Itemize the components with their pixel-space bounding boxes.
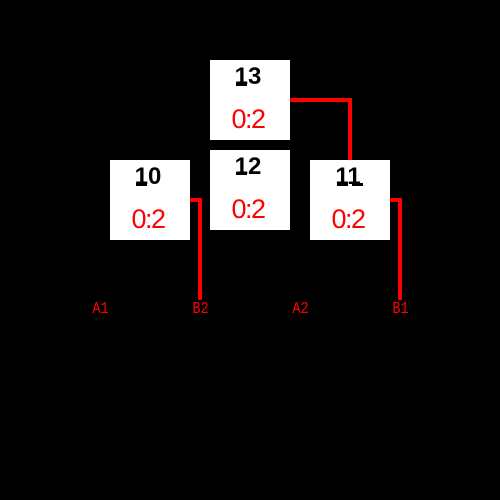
wire 10 to B2 vertical segment bbox=[198, 198, 202, 300]
box 11 number label bbox=[308, 165, 388, 189]
digit 1 foot serif (13) bbox=[236, 83, 247, 86]
node label B1 bbox=[392, 301, 409, 318]
box 10 score 0:2 bbox=[108, 206, 188, 233]
node label A2 bbox=[292, 301, 309, 318]
box 10 number label bbox=[108, 165, 188, 189]
match box 13 bbox=[210, 60, 290, 140]
box 12 number label bbox=[208, 155, 288, 179]
box 12 score 0:2 bbox=[208, 196, 288, 223]
digit 1 foot serif (10) bbox=[136, 183, 147, 186]
match box 11 bbox=[310, 160, 390, 240]
wire 10 to B2 horizontal segment bbox=[190, 198, 202, 202]
wire 13 to 11 horizontal segment bbox=[290, 98, 352, 102]
match box 10 bbox=[110, 160, 190, 240]
digit 1 foot serifs (11) bbox=[337, 183, 349, 186]
wire 13 to 11 vertical segment bbox=[348, 98, 352, 160]
node label B2 bbox=[192, 301, 209, 318]
node label A1 bbox=[92, 301, 109, 318]
wire 11 to B1 horizontal segment bbox=[390, 198, 402, 202]
wire 11 to B1 vertical segment bbox=[398, 198, 402, 300]
match box 12 bbox=[210, 150, 290, 230]
box 13 score 0:2 bbox=[208, 106, 288, 133]
box 11 score 0:2 bbox=[308, 206, 388, 233]
digit 1 foot serif (12) bbox=[236, 173, 247, 176]
box 13 number label bbox=[208, 65, 288, 89]
